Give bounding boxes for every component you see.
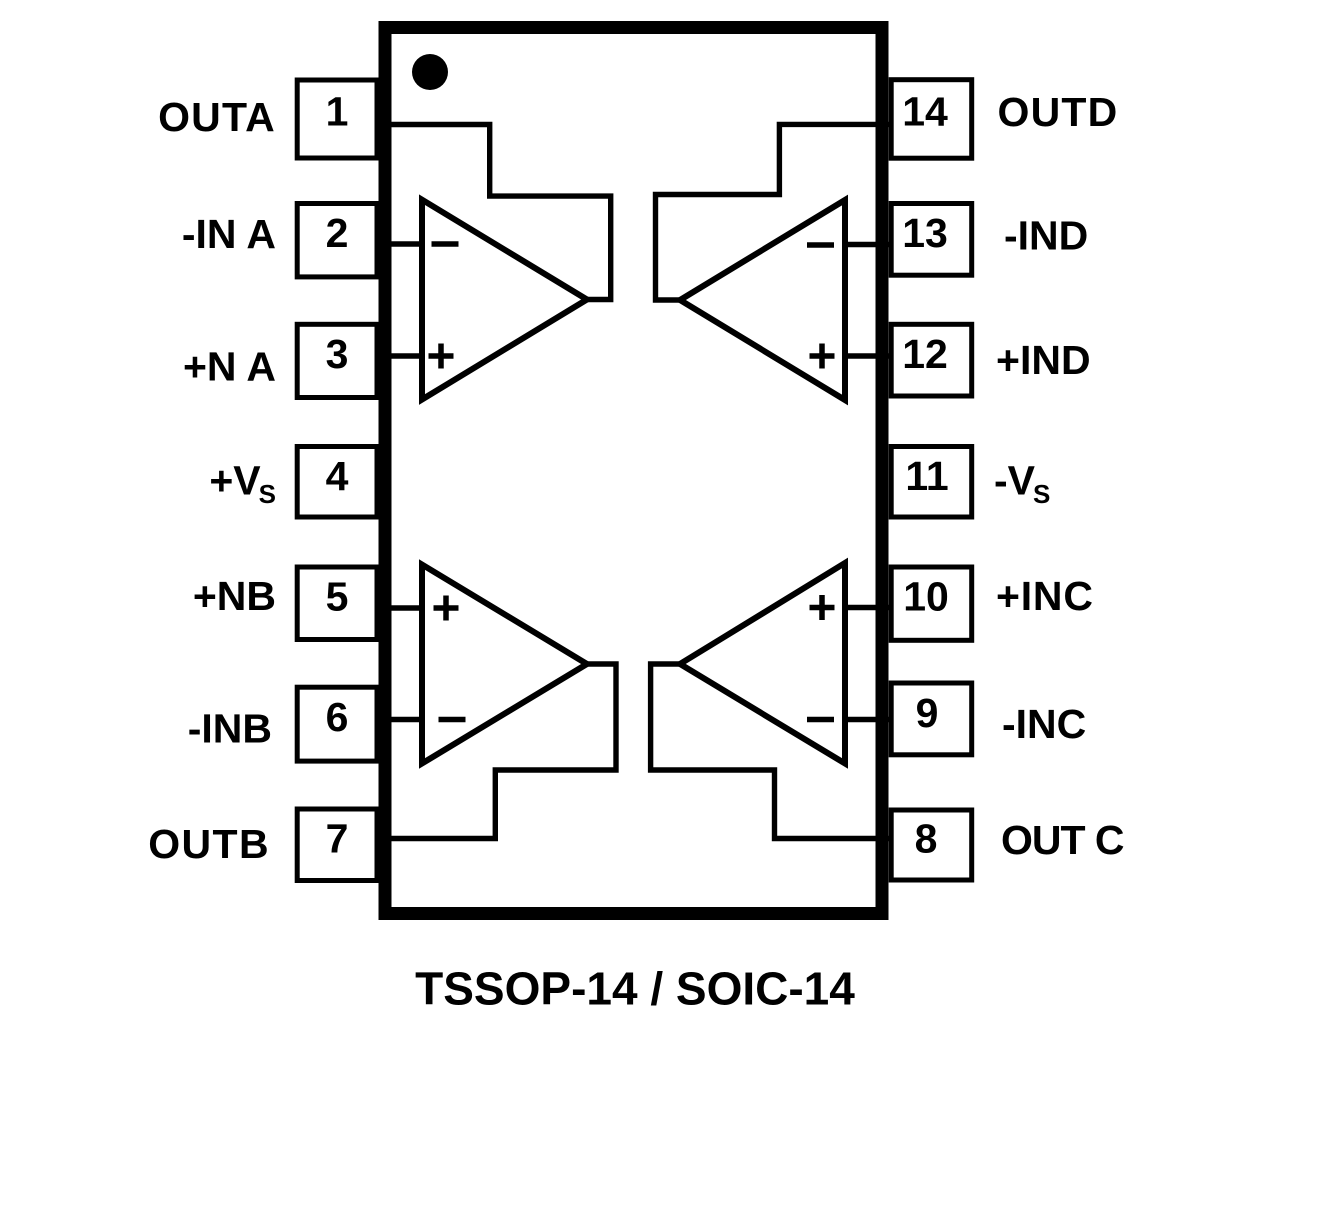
svg-text:1: 1	[326, 89, 349, 135]
pin 14 box	[891, 80, 972, 159]
svg-text:10: 10	[903, 574, 949, 620]
op-amp U1C minus sign	[807, 717, 834, 723]
svg-text:13: 13	[902, 210, 948, 256]
wire pin5 to op-amp B non-inverting input	[378, 605, 421, 610]
op-amp U1C plus sign	[810, 595, 835, 620]
svg-text:+IND: +IND	[996, 337, 1091, 383]
op-amp U1C triangle	[680, 563, 845, 764]
pin 8 box	[891, 810, 972, 880]
pin 9 box	[891, 683, 972, 755]
svg-text:4: 4	[326, 453, 349, 499]
svg-text:-IND: -IND	[1004, 212, 1088, 258]
op-amp U1D triangle	[680, 200, 845, 400]
wire pin1 to op-amp A output	[378, 125, 611, 300]
svg-text:5: 5	[326, 574, 349, 620]
op-amp U1D minus sign	[807, 242, 834, 248]
svg-text:TSSOP-14 / SOIC-14: TSSOP-14 / SOIC-14	[415, 963, 855, 1015]
svg-text:OUTA: OUTA	[158, 94, 276, 140]
svg-text:-INB: -INB	[188, 705, 272, 751]
op-amp U1A plus sign	[429, 344, 454, 369]
wire pin2 to op-amp A inverting input	[378, 241, 421, 246]
svg-text:OUT C: OUT C	[1001, 817, 1124, 863]
pin 5 box	[297, 567, 377, 640]
pin 3 box	[297, 324, 377, 397]
pin 1 box	[297, 80, 377, 158]
svg-text:+INC: +INC	[996, 573, 1094, 619]
wire pin3 to op-amp A non-inverting input	[378, 353, 421, 358]
op-amp U1D plus sign	[810, 344, 835, 369]
pin 10 box	[891, 567, 972, 640]
pin 13 box	[891, 204, 972, 276]
svg-text:+NB: +NB	[193, 573, 276, 619]
op-amp U1A minus sign	[432, 241, 459, 247]
pin 4 box	[297, 447, 377, 518]
svg-text:11: 11	[905, 453, 948, 499]
svg-text:+N A: +N A	[183, 344, 276, 390]
wire pin6 to op-amp B inverting input	[378, 717, 421, 722]
wire pin12 to op-amp D non-inverting input	[846, 353, 889, 358]
svg-text:+VS: +VS	[209, 458, 276, 510]
wire pin13 to op-amp D inverting input	[846, 242, 889, 247]
svg-text:OUTB: OUTB	[148, 821, 270, 867]
svg-text:-VS: -VS	[994, 458, 1050, 510]
svg-text:8: 8	[915, 816, 938, 862]
pin 11 box	[891, 447, 972, 518]
op-amp U1B plus sign	[434, 596, 459, 621]
wire pin9 to op-amp C inverting input	[846, 717, 889, 722]
pin 6 box	[297, 687, 377, 761]
pin 12 box	[891, 324, 972, 396]
wire pin7 to op-amp B output	[378, 664, 616, 839]
IC body U1 (TSSOP-14/SOIC-14 outline)	[385, 28, 882, 914]
svg-text:6: 6	[326, 694, 349, 740]
svg-text:12: 12	[902, 331, 948, 377]
svg-text:-IN A: -IN A	[182, 211, 276, 257]
wire pin10 to op-amp C non-inverting input	[846, 605, 889, 610]
pin 2 box	[297, 204, 377, 277]
svg-text:14: 14	[902, 89, 948, 135]
svg-text:-INC: -INC	[1002, 701, 1086, 747]
svg-text:2: 2	[326, 210, 349, 256]
svg-text:9: 9	[916, 690, 939, 736]
pin 1 indicator dot	[412, 54, 448, 90]
op-amp U1B minus sign	[439, 717, 466, 723]
pin 7 box	[297, 809, 377, 881]
svg-text:7: 7	[326, 816, 349, 862]
op-amp U1B triangle	[422, 565, 587, 764]
op-amp U1A triangle	[422, 200, 587, 400]
svg-text:3: 3	[326, 331, 349, 377]
wire pin14 to op-amp D output	[656, 124, 890, 300]
svg-text:OUTD: OUTD	[998, 89, 1119, 135]
wire pin8 to op-amp C output	[651, 664, 889, 839]
